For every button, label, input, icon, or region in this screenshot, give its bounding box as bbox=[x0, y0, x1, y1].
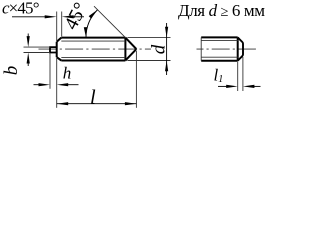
small screw truncated cone tip bbox=[238, 37, 243, 60]
cone point bbox=[125, 38, 136, 61]
45 degree construction line (cone slant extended) bbox=[94, 6, 125, 37]
b dimension lines with arrows bbox=[27, 34, 29, 67]
centerline of main screw axis bbox=[39, 48, 152, 50]
d diameter extension lines bbox=[127, 38, 170, 61]
svg-text:b: b bbox=[1, 66, 22, 76]
centerline of small screw bbox=[197, 48, 258, 50]
45 degree angular dimension arc with arrows bbox=[86, 10, 98, 38]
small screw thread lines bbox=[201, 41, 238, 58]
c chamfer dimension extension lines bbox=[57, 12, 62, 42]
svg-text:d: d bbox=[149, 44, 170, 54]
l dimension line with arrows bbox=[57, 103, 137, 105]
svg-text:h: h bbox=[63, 64, 72, 83]
thread minor diameter lines bbox=[61, 41, 125, 57]
slot tab (slot depth profile) bbox=[50, 47, 57, 52]
b slot width extension lines bbox=[24, 47, 51, 52]
small screw body (for d >= 6 mm) bbox=[201, 37, 238, 60]
small screw left face (thin) bbox=[200, 37, 202, 60]
svg-text:Для d ≥ 6 мм: Для d ≥ 6 мм bbox=[178, 1, 265, 20]
screw body outline (main view) bbox=[57, 38, 126, 61]
svg-text:l: l bbox=[90, 86, 96, 108]
d dimension line with arrows bbox=[166, 23, 168, 75]
l1 dimension lines with arrows bbox=[218, 85, 261, 87]
h slot depth extension lines bbox=[50, 54, 57, 108]
svg-text:l1: l1 bbox=[214, 65, 224, 85]
svg-text:c×45°: c×45° bbox=[2, 0, 40, 18]
l length extension line at cone tip bbox=[135, 51, 137, 108]
c dimension lines with arrows bbox=[12, 16, 84, 18]
h dimension lines with arrows bbox=[34, 84, 79, 86]
l1 extension lines bbox=[238, 57, 243, 91]
